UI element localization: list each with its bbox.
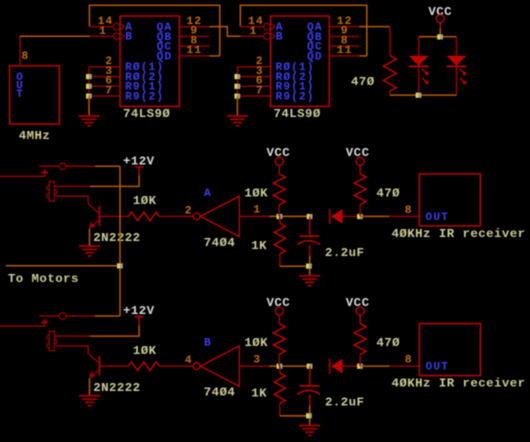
capacitor 2.2uF (309, 216, 311, 236)
U2 pin B stub + bubble (241, 35, 264, 37)
svg-text:2N2222: 2N2222 (93, 231, 140, 245)
wire 1K to cap ground rail (280, 265, 310, 267)
svg-text:R9(2): R9(2) (276, 91, 315, 103)
svg-text:7: 7 (256, 85, 264, 97)
U1 QD pin stub (11) (179, 55, 209, 57)
wire cap to ground (309, 256, 311, 276)
svg-text:B: B (276, 32, 284, 44)
oscillator X1 4MHz box (10, 66, 60, 124)
svg-text:1ØK: 1ØK (133, 194, 157, 208)
wire node row (269, 215, 310, 217)
svg-text:To Motors: To Motors (8, 272, 79, 286)
LED D2 (446, 37, 466, 95)
svg-text:1: 1 (253, 205, 261, 217)
svg-text:74LS9Ø: 74LS9Ø (123, 107, 170, 121)
svg-text:2.2uF: 2.2uF (325, 396, 364, 410)
svg-text:11: 11 (186, 45, 202, 57)
ground (cap) (299, 276, 320, 286)
LED D1 (409, 37, 429, 95)
resistor 470 (pullup) (354, 174, 366, 205)
inverter U3B 7404 triangle with bubble (193, 363, 200, 370)
svg-text:OUT: OUT (426, 212, 449, 224)
svg-text:74Ø4: 74Ø4 (204, 386, 236, 400)
svg-text:8: 8 (405, 205, 413, 217)
wire LED top rail (419, 36, 457, 38)
U2 pin A stub + bubble (240, 26, 263, 28)
resistor 10K (pullup) (273, 324, 285, 355)
wire U1 QD to feedback rail (209, 55, 219, 57)
svg-text:A: A (204, 188, 212, 200)
wire diode anode to 470 (343, 215, 361, 217)
svg-text:2N2222: 2N2222 (93, 381, 140, 395)
diode D (to receiver) (330, 209, 343, 224)
wire 470 node to receiver OUT (360, 365, 389, 367)
svg-text:B: B (125, 32, 133, 44)
transistor base lead (99, 215, 128, 217)
svg-text:1: 1 (250, 26, 258, 38)
inverter output stub (239, 215, 269, 217)
junction tick node/cap (307, 364, 310, 369)
svg-text:8: 8 (21, 51, 29, 63)
U1 pin A stub + bubble (89, 26, 113, 28)
IR receiver module box (419, 174, 480, 226)
resistor 10K (base) (128, 362, 159, 370)
junction tick 470/node (357, 214, 360, 219)
wire transistor emitter to ground (89, 229, 91, 247)
ground (transistor) (79, 396, 100, 406)
svg-text:1K: 1K (251, 239, 267, 253)
wire 470 node to receiver OUT (360, 215, 389, 217)
junction ticks U1 reset bus (86, 74, 89, 79)
wire VCC to LED rail (439, 29, 441, 37)
ground (transistor) (79, 246, 100, 256)
wire diode anode to 470 (343, 365, 361, 367)
transistor base lead (99, 365, 128, 367)
svg-text:7: 7 (105, 85, 113, 97)
svg-text:47Ø: 47Ø (376, 186, 400, 200)
wire cap to ground (309, 405, 311, 425)
relay contact moving arm with arrow (0, 174, 45, 177)
ground (U2) (227, 116, 248, 126)
wire +12V to relay coil (90, 176, 139, 187)
junction tick VCC/LED rail (437, 34, 440, 39)
svg-text:4ØKHz IR receiver: 4ØKHz IR receiver (392, 377, 526, 391)
svg-text:4MHz: 4MHz (19, 129, 51, 143)
relay contact fixed lead (39, 315, 59, 317)
IC U1 74LS90 box (120, 16, 179, 106)
relay coil K (47, 182, 57, 202)
svg-text:1ØK: 1ØK (133, 344, 157, 358)
svg-text:1ØK: 1ØK (244, 186, 268, 200)
wire U2 QD to feedback rail (359, 55, 367, 57)
U1 QA pin stub (12) (179, 26, 209, 28)
svg-text:74LS9Ø: 74LS9Ø (274, 107, 321, 121)
junction tick LED bottom rail (416, 93, 419, 98)
svg-text:47Ø: 47Ø (376, 336, 400, 350)
relay coil K (47, 331, 57, 351)
wire U1 QA to U2 B (209, 27, 240, 37)
svg-text:VCC: VCC (428, 5, 452, 19)
U1 QC pin stub (8) (179, 45, 209, 47)
U2 QB pin stub (9) (329, 35, 359, 37)
U1 QB pin stub (9) (179, 35, 209, 37)
wire U2 reset bus to ground (236, 96, 238, 116)
svg-text:8: 8 (405, 355, 413, 367)
wire orange feedback rail IC1 QD->A (89, 5, 219, 56)
inverter U3A 7404 triangle with bubble (193, 213, 200, 220)
diode D (to receiver) (330, 359, 343, 374)
ground (U1) (79, 116, 100, 126)
U2 QA pin stub (12) (329, 26, 359, 28)
svg-text:3: 3 (253, 354, 261, 366)
wire 10K to inverter input (159, 215, 193, 217)
IR receiver module box (419, 324, 480, 376)
wire relay coil to transistor collector (56, 196, 88, 204)
svg-text:B: B (204, 338, 212, 350)
wire node row (269, 365, 310, 367)
wire relay coil to transistor collector (56, 346, 88, 354)
junction tick 470/node (357, 364, 360, 369)
U2 QC pin stub (8) (329, 45, 359, 47)
svg-text:4ØKHz IR receiver: 4ØKHz IR receiver (392, 227, 526, 241)
resistor R1 470 (LED driver) (389, 27, 391, 56)
capacitor 2.2uF (309, 366, 311, 386)
wire U1 reset bus to ground (88, 96, 90, 116)
transistor Q 2N2222 (88, 204, 99, 229)
U2 QD pin stub (11) (329, 55, 359, 57)
svg-text:1K: 1K (251, 386, 267, 400)
resistor 10K (base) (128, 212, 159, 220)
svg-text:R9(2): R9(2) (125, 91, 164, 103)
resistor 1K (279, 366, 281, 373)
wire +12V to relay coil (90, 325, 139, 336)
svg-text:1ØK: 1ØK (244, 336, 268, 350)
U1 pin B stub + bubble (90, 35, 113, 37)
U1 reset bus wires pins 2 3 6 7 (89, 66, 120, 68)
relay contact moving arm with arrow (0, 323, 45, 326)
svg-text:47Ø: 47Ø (351, 75, 375, 89)
wire 1K to cap ground rail (280, 415, 310, 417)
svg-text:OUT: OUT (426, 362, 449, 374)
junction tick node/cap (307, 214, 310, 219)
svg-text:T: T (16, 89, 24, 101)
resistor 1K (279, 216, 281, 223)
junction tick cap/rail (306, 264, 309, 269)
resistor 10K (pullup) (273, 174, 285, 205)
inverter output stub (239, 365, 269, 367)
svg-text:74Ø4: 74Ø4 (204, 236, 236, 250)
wire U2 QA to resistor R1 (359, 26, 390, 28)
junction tick cap/rail (306, 413, 309, 418)
wire orange feedback rail IC2 QD->A (240, 5, 366, 56)
wire osc OUT to IC1 B (20, 35, 90, 37)
IC U2 74LS90 box (271, 16, 330, 106)
resistor 470 (pullup) (354, 324, 366, 355)
wire LED bottom rail (390, 94, 457, 96)
ground (cap) (299, 426, 320, 436)
U2 reset bus wires pins 2 3 6 7 (237, 66, 270, 68)
relay contact fixed lead (39, 165, 59, 167)
wire To Motors rail (6, 265, 120, 267)
junction ticks U2 reset bus (234, 74, 237, 79)
junction tick node/10K (277, 364, 280, 369)
svg-text:11: 11 (337, 45, 353, 57)
transistor Q 2N2222 (88, 354, 99, 379)
oscillator pin 8 stub (19, 36, 21, 66)
wire transistor emitter to ground (89, 378, 91, 396)
junction tick node/10K (277, 214, 280, 219)
svg-text:1: 1 (99, 26, 107, 38)
wire 10K to inverter input (159, 365, 193, 367)
junction tick To Motors (117, 263, 120, 268)
svg-text:2: 2 (185, 205, 193, 217)
svg-text:2.2uF: 2.2uF (325, 246, 364, 260)
wire +12V switched rail (contact to contact) (119, 166, 121, 316)
svg-text:4: 4 (185, 355, 193, 367)
